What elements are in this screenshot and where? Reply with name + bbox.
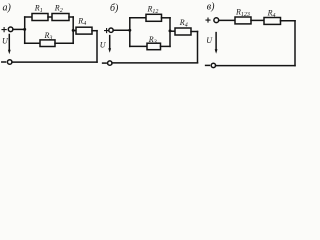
svg-text:R123: R123 (235, 7, 250, 17)
svg-text:R4: R4 (267, 8, 276, 18)
wire R4 to right corner b (191, 31, 198, 33)
wire R123 to R4 v (251, 19, 264, 21)
terminal circle - of port a (7, 60, 12, 65)
terminal circle + of port v (214, 18, 219, 23)
wire R1 to R2 (48, 16, 52, 18)
resistor R4 of circuit v (264, 18, 281, 25)
svg-text:R12: R12 (147, 5, 159, 16)
wire right down a (96, 31, 98, 62)
svg-text:в): в) (207, 1, 215, 12)
wire bottom branch a to R3 (25, 42, 40, 44)
svg-text:R2: R2 (54, 4, 63, 15)
svg-text:U: U (206, 36, 213, 45)
voltage arrow of b (109, 36, 111, 50)
svg-text:б): б) (110, 3, 119, 14)
node junction dot left a (23, 28, 26, 31)
wire right vertical b (169, 18, 171, 47)
minus sign left port b (103, 62, 107, 64)
resistor R2 (52, 14, 69, 21)
terminal circle + of port a (8, 27, 13, 32)
wire node to R4 b (170, 30, 175, 32)
wire top branch b to R12 (130, 17, 146, 19)
svg-text:U: U (2, 37, 9, 46)
plus sign left port v (206, 18, 210, 22)
terminal circle + of port b (109, 28, 113, 32)
wire R3 to right vertical a (55, 42, 73, 44)
svg-text:R3: R3 (44, 31, 53, 42)
voltage label U of b (100, 40, 107, 49)
wire from + terminal v to R123 (219, 19, 235, 21)
resistor R3 (40, 40, 55, 47)
plus sign left port a (2, 28, 6, 32)
wire bottom branch b to R3 (130, 45, 147, 47)
node junction dot right b (169, 29, 172, 32)
svg-text:R4: R4 (179, 18, 188, 29)
wire bottom rail b (112, 62, 198, 64)
resistor R12 (146, 14, 162, 21)
voltage arrow of v (215, 33, 217, 51)
plus sign left port b (105, 29, 109, 33)
svg-text:U: U (100, 40, 107, 49)
minus sign left port v (206, 64, 210, 66)
wire R4 to right corner a (92, 30, 97, 32)
wire from + terminal b to node (113, 29, 130, 31)
node junction dot left b (128, 29, 131, 32)
resistor R123 (235, 17, 251, 24)
resistor R3 of circuit b (147, 43, 161, 50)
voltage label U of v (206, 36, 213, 45)
wire bottom rail v (216, 65, 295, 67)
voltage arrow of a (8, 35, 10, 52)
svg-text:а): а) (3, 3, 12, 14)
resistor R1 (32, 14, 48, 21)
minus sign left port a (2, 61, 6, 63)
wire right down b (197, 32, 199, 63)
wire left vertical a (24, 17, 26, 43)
svg-text:R3: R3 (148, 35, 157, 46)
wire bottom rail a (12, 61, 97, 63)
wire top branch a to R1 (25, 16, 32, 18)
wire R2 to right vertical a (69, 16, 73, 18)
label а) (3, 3, 12, 14)
wire R12 to right vertical b (162, 17, 171, 19)
label б) (110, 3, 119, 14)
wire right vertical a (72, 17, 74, 43)
wire R4 to right corner v (281, 20, 296, 22)
wire left vertical b (129, 18, 131, 47)
svg-text:R1: R1 (34, 4, 43, 15)
wire node to R4 a (73, 30, 76, 32)
svg-text:R4: R4 (77, 16, 86, 27)
wire from + terminal a to node (13, 28, 25, 30)
terminal circle - of port b (108, 61, 112, 65)
voltage label U of a (2, 37, 9, 46)
node junction dot right a (72, 29, 75, 32)
wire right down v (294, 21, 296, 66)
label в) (207, 1, 215, 12)
wire R3 to right vertical b (161, 45, 171, 47)
terminal circle - of port v (211, 63, 215, 67)
resistor R4 of circuit b (175, 28, 191, 35)
resistor R4 of circuit a (76, 27, 92, 34)
